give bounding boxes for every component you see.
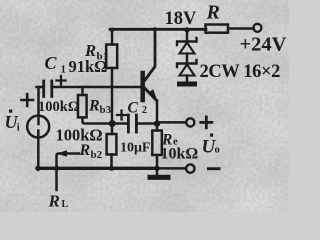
resistor Rb2 box <box>107 134 117 155</box>
zener D2 cathode bar <box>177 60 197 67</box>
resistor Re box <box>152 131 162 156</box>
wire bottom rail <box>38 167 158 170</box>
paper background <box>0 0 289 212</box>
terminal +24V circle <box>253 24 261 32</box>
svg-text:L: L <box>62 199 69 210</box>
wire output plus <box>157 121 186 124</box>
wire zener bottom <box>186 76 189 82</box>
wire Rb1 bottom to node N (crosses base line) <box>111 68 114 123</box>
plus sign at output <box>201 117 212 128</box>
svg-text:b2: b2 <box>91 149 103 161</box>
wire Rb3 elbow to node line <box>83 117 128 123</box>
terminal plus circle <box>186 118 194 126</box>
zener D2 triangle <box>180 65 195 76</box>
emitter arrowhead <box>148 89 157 101</box>
svg-text:i: i <box>17 123 20 134</box>
transistor Q1 collector <box>145 29 155 80</box>
wire source bottom <box>37 131 40 169</box>
plus sign at C2 <box>117 111 126 120</box>
wire base line <box>37 86 141 89</box>
svg-text:b3: b3 <box>100 104 112 116</box>
svg-text:R: R <box>206 2 220 24</box>
wire Rb3 top stub <box>81 87 84 95</box>
svg-text:1: 1 <box>61 64 67 76</box>
svg-text:2: 2 <box>142 105 147 116</box>
svg-text:18V: 18V <box>165 9 198 29</box>
source Ui circle <box>27 116 49 138</box>
wire Rb1 stub from rail <box>111 29 114 44</box>
resistor R box <box>206 25 229 33</box>
plus sign at Ui input <box>22 94 34 106</box>
svg-text:100kΩ: 100kΩ <box>38 99 79 115</box>
minus sign at output <box>209 167 220 170</box>
ground bar under Re <box>148 175 171 180</box>
svg-text:R: R <box>48 192 60 211</box>
svg-text:10kΩ: 10kΩ <box>161 146 199 163</box>
zener D1 triangle <box>180 43 195 54</box>
resistor Rb3 box <box>78 95 87 117</box>
wire top rail <box>110 28 206 31</box>
svg-text:R: R <box>88 98 100 115</box>
ground bar under zeners <box>177 82 197 87</box>
Rb2 leader arrowhead <box>57 150 68 157</box>
junction dot zener tap on rail <box>184 27 189 32</box>
svg-text:2CW 16×2: 2CW 16×2 <box>200 62 281 82</box>
junction dot Re on rail <box>154 166 159 171</box>
svg-text:R: R <box>79 142 91 159</box>
transistor Q1 emitter <box>145 89 157 101</box>
wire emitter vertical <box>156 101 159 176</box>
wire Rb2 bottom stub <box>110 155 113 169</box>
capacitor C2 plates <box>128 115 136 132</box>
junction dot node N / Rb1 <box>109 120 116 127</box>
junction dot RL on rail <box>54 166 59 171</box>
wire between zeners <box>186 54 189 63</box>
junction dot Rb1 tap on rail <box>110 28 115 33</box>
wire output minus <box>157 167 186 170</box>
svg-text:91kΩ: 91kΩ <box>69 57 108 76</box>
plus sign at C1 <box>57 76 66 85</box>
zener D1 cathode bar <box>177 38 197 45</box>
resistor Rb1 box <box>106 45 117 69</box>
svg-text:C: C <box>128 99 139 116</box>
svg-text:10μF: 10μF <box>120 141 151 156</box>
junction dot emitter/node <box>154 120 160 126</box>
wire input drop to source <box>37 87 40 124</box>
wire zener stub from rail <box>186 29 189 41</box>
junction dot Rb2 on rail <box>109 166 114 171</box>
wire R to +24V terminal <box>228 27 254 30</box>
svg-text:+24V: +24V <box>240 34 287 56</box>
transistor Q1 base bar <box>140 73 145 100</box>
svg-text:o: o <box>215 145 220 156</box>
wire Rb2 top stub <box>111 124 114 135</box>
junction dot rail left end <box>35 166 40 171</box>
svg-text:C: C <box>45 53 58 73</box>
wire node line right of C2 to emitter <box>138 122 158 125</box>
capacitor C1 plates <box>44 81 52 97</box>
wire RL leg through rail <box>57 154 80 191</box>
terminal minus circle <box>186 164 194 172</box>
